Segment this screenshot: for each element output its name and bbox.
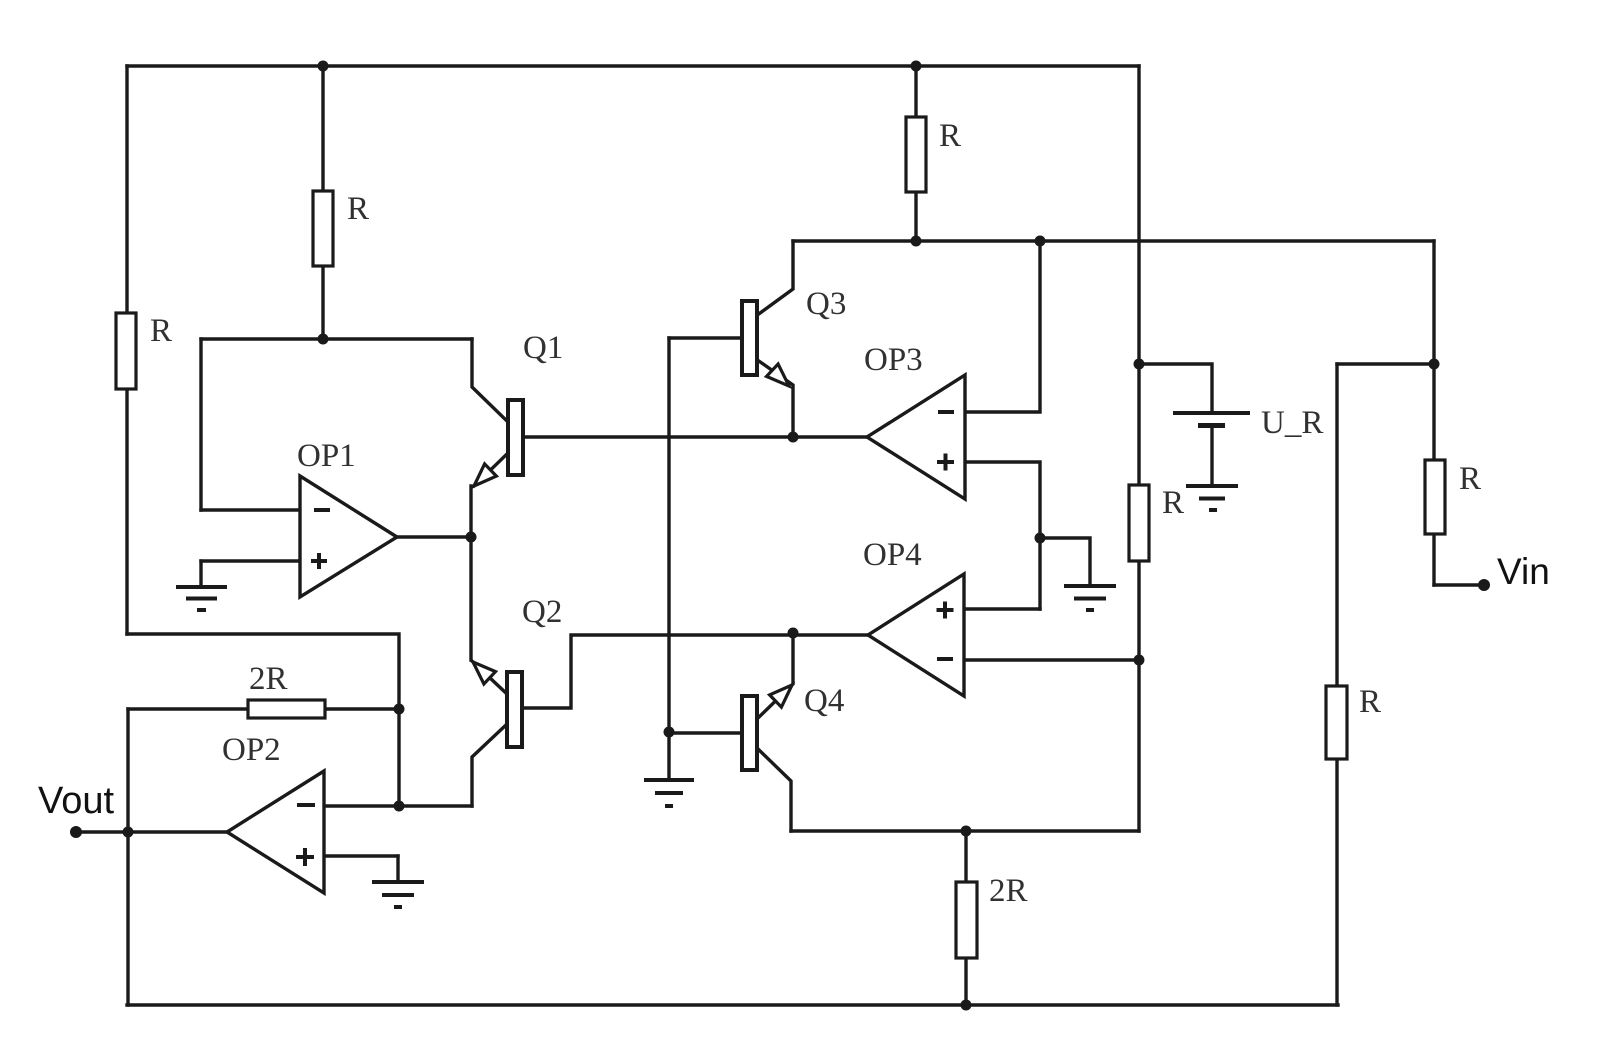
ground OP1 (176, 587, 227, 610)
wire OP1 minus input (201, 508, 300, 511)
wire Q2 emitter diagonal (472, 661, 507, 694)
wire Vin lead (1434, 583, 1484, 586)
wire Q4 emitter rail y831 (791, 829, 1139, 832)
svg-text:R: R (347, 191, 369, 227)
op-amp OP4 plus sign (937, 602, 954, 619)
node 2R bottom (961, 1000, 972, 1011)
resistor R3 (906, 117, 926, 192)
ground x669 (644, 780, 694, 806)
wire OP2 plus input (324, 854, 398, 857)
node OP1 out (466, 532, 477, 543)
op-amp OP4 minus sign (937, 657, 953, 661)
wire OP3 plus input (965, 462, 1040, 609)
wire Q2 collector (472, 724, 507, 806)
node 2Rh right (394, 704, 405, 715)
ground OP34 (1064, 586, 1116, 610)
wire U_R branch (1139, 364, 1212, 411)
transistor Q1 bar (508, 400, 523, 475)
transistor Q4 emitter arrow (770, 685, 792, 707)
op-amp OP1 minus sign (314, 508, 330, 512)
wire bottom rail (127, 1003, 1338, 1006)
svg-text:2R: 2R (989, 873, 1028, 909)
wire ground branch right (1040, 538, 1090, 585)
wire x1139 vertical (1137, 66, 1140, 831)
node Q3 emitter base rail (788, 432, 799, 443)
resistor 2R horizontal (248, 700, 325, 718)
svg-text:U_R: U_R (1261, 405, 1323, 441)
wire x1337 vertical (1335, 364, 1338, 1005)
wire Q1 base rail y437 (523, 435, 867, 438)
node top R1 (318, 61, 329, 72)
wire R3 drop x916 (914, 66, 917, 241)
op-amp OP3 plus sign (937, 454, 954, 471)
transistor Q1 emitter arrow (474, 464, 496, 486)
wire 2R vertical drop (964, 831, 967, 1005)
op-amp OP3 minus sign (938, 410, 954, 414)
wire y364 right link (1337, 362, 1434, 365)
svg-text:Q4: Q4 (804, 683, 844, 719)
wire OP3 minus input (965, 241, 1040, 412)
svg-text:Q2: Q2 (522, 594, 562, 630)
op-amp OP3 (867, 375, 965, 499)
wire OP1 output (397, 535, 471, 538)
wire OP1 minus riser (199, 339, 202, 510)
wire OP2 plus ground stub (396, 856, 399, 881)
wire OP2 output Vout (76, 830, 227, 833)
wire Q3 base (669, 336, 742, 339)
svg-text:OP2: OP2 (222, 732, 281, 768)
wire OP4 plus input (965, 607, 1040, 610)
node R3 bottom (911, 236, 922, 247)
transistor Q2 emitter arrow (473, 662, 496, 684)
wire U_R ground stub (1210, 428, 1213, 485)
svg-text:R: R (1459, 461, 1481, 497)
node top R3 (911, 61, 922, 72)
wire R1 drop x323 (321, 66, 324, 339)
svg-text:R: R (939, 118, 961, 154)
op-amp OP1 (300, 476, 397, 597)
node x1434 y364 (1429, 359, 1440, 370)
resistor R1 (313, 191, 333, 266)
resistor R2 (116, 313, 136, 389)
wire Q1 emitter diagonal (474, 453, 508, 486)
wire OP4 minus input (964, 658, 1139, 661)
node Q4 emitter top (788, 628, 799, 639)
node A y339 (318, 334, 329, 345)
transistor Q4 bar (742, 696, 757, 770)
svg-text:Q3: Q3 (806, 286, 846, 322)
wire Q1 collector (472, 339, 508, 422)
battery U_R (1173, 413, 1250, 426)
wire node-A horizontal y339 (201, 337, 472, 340)
node 2R top (961, 826, 972, 837)
wire lower-left vertical (126, 709, 129, 1005)
svg-text:Q1: Q1 (523, 330, 563, 366)
wire x471 riser (469, 486, 472, 660)
wire OP1 plus ground stub (199, 561, 202, 586)
terminal Vout (70, 826, 82, 838)
node Vout junction (123, 827, 134, 838)
wire x1434 vertical (1432, 241, 1435, 585)
ground U_R (1186, 486, 1238, 510)
wire Q4 collector (757, 748, 791, 831)
node U_R tap (1134, 359, 1145, 370)
resistor 2R vertical (956, 882, 977, 958)
wire Q4 base (669, 731, 742, 734)
ground OP2 (372, 882, 424, 907)
wire y241 rail (793, 239, 1434, 242)
node OP4 minus (1134, 655, 1145, 666)
transistor Q3 bar (742, 301, 757, 375)
wire x669 vertical (667, 338, 670, 779)
wire OP2 minus input (324, 804, 472, 807)
transistor Q2 bar (507, 672, 522, 747)
transistor Q3 emitter arrow (767, 364, 790, 386)
svg-text:2R: 2R (249, 661, 288, 697)
svg-text:R: R (1162, 485, 1184, 521)
wire left-to-OP2 elbow (127, 634, 399, 806)
node Q4 base (664, 727, 675, 738)
wire Q2 base elbow (522, 635, 868, 708)
resistor R5 (1425, 460, 1445, 534)
svg-text:OP4: OP4 (863, 537, 922, 573)
node OP2 minus (394, 801, 405, 812)
op-amp OP1 plus sign (311, 553, 327, 569)
op-amp OP2 minus sign (297, 803, 315, 807)
wire Q4 emitter (757, 633, 793, 719)
op-amp OP2 plus sign (296, 848, 314, 866)
svg-text:OP3: OP3 (864, 342, 923, 378)
svg-text:OP1: OP1 (297, 438, 356, 474)
resistor R6 (1326, 686, 1347, 759)
wire Q3 emitter (756, 359, 793, 437)
svg-text:R: R (1359, 684, 1381, 720)
wire Q3 collector (756, 241, 793, 316)
svg-text:R: R (150, 313, 172, 349)
node OP3 minus rail (1035, 236, 1046, 247)
op-amp OP4 (868, 574, 964, 696)
svg-text:Vin: Vin (1497, 551, 1550, 592)
resistor R4 (1129, 485, 1149, 561)
op-amp OP2 (227, 771, 324, 893)
wire left vertical drop (125, 66, 128, 634)
wire 2R horizontal y709 (128, 707, 399, 710)
wire OP1 plus input (201, 559, 300, 562)
svg-text:Vout: Vout (38, 780, 115, 822)
wire top rail (127, 64, 1139, 67)
terminal Vin (1478, 579, 1490, 591)
node OP3 plus (1035, 533, 1046, 544)
